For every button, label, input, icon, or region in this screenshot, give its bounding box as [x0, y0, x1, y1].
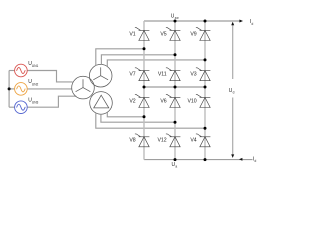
svg-text:UN2: UN2 [32, 82, 39, 86]
svg-text:d: d [252, 22, 254, 26]
svg-text:a: a [175, 165, 177, 169]
svg-text:V4: V4 [190, 138, 196, 144]
svg-text:V6: V6 [160, 98, 166, 104]
svg-text:V9: V9 [190, 31, 196, 37]
svg-text:V7: V7 [129, 72, 135, 78]
svg-text:UN3: UN3 [32, 101, 39, 105]
svg-text:V2: V2 [129, 98, 135, 104]
svg-text:V10: V10 [187, 98, 196, 104]
svg-text:d: d [255, 159, 257, 163]
svg-text:UN1: UN1 [32, 64, 39, 68]
svg-text:V8: V8 [129, 138, 135, 144]
svg-text:zw: zw [175, 16, 180, 20]
svg-text:V12: V12 [157, 138, 166, 144]
svg-text:V11: V11 [158, 72, 167, 78]
svg-text:V5: V5 [160, 31, 166, 37]
svg-text:d: d [233, 91, 235, 95]
svg-text:V1: V1 [129, 31, 135, 37]
svg-text:V3: V3 [190, 72, 196, 78]
